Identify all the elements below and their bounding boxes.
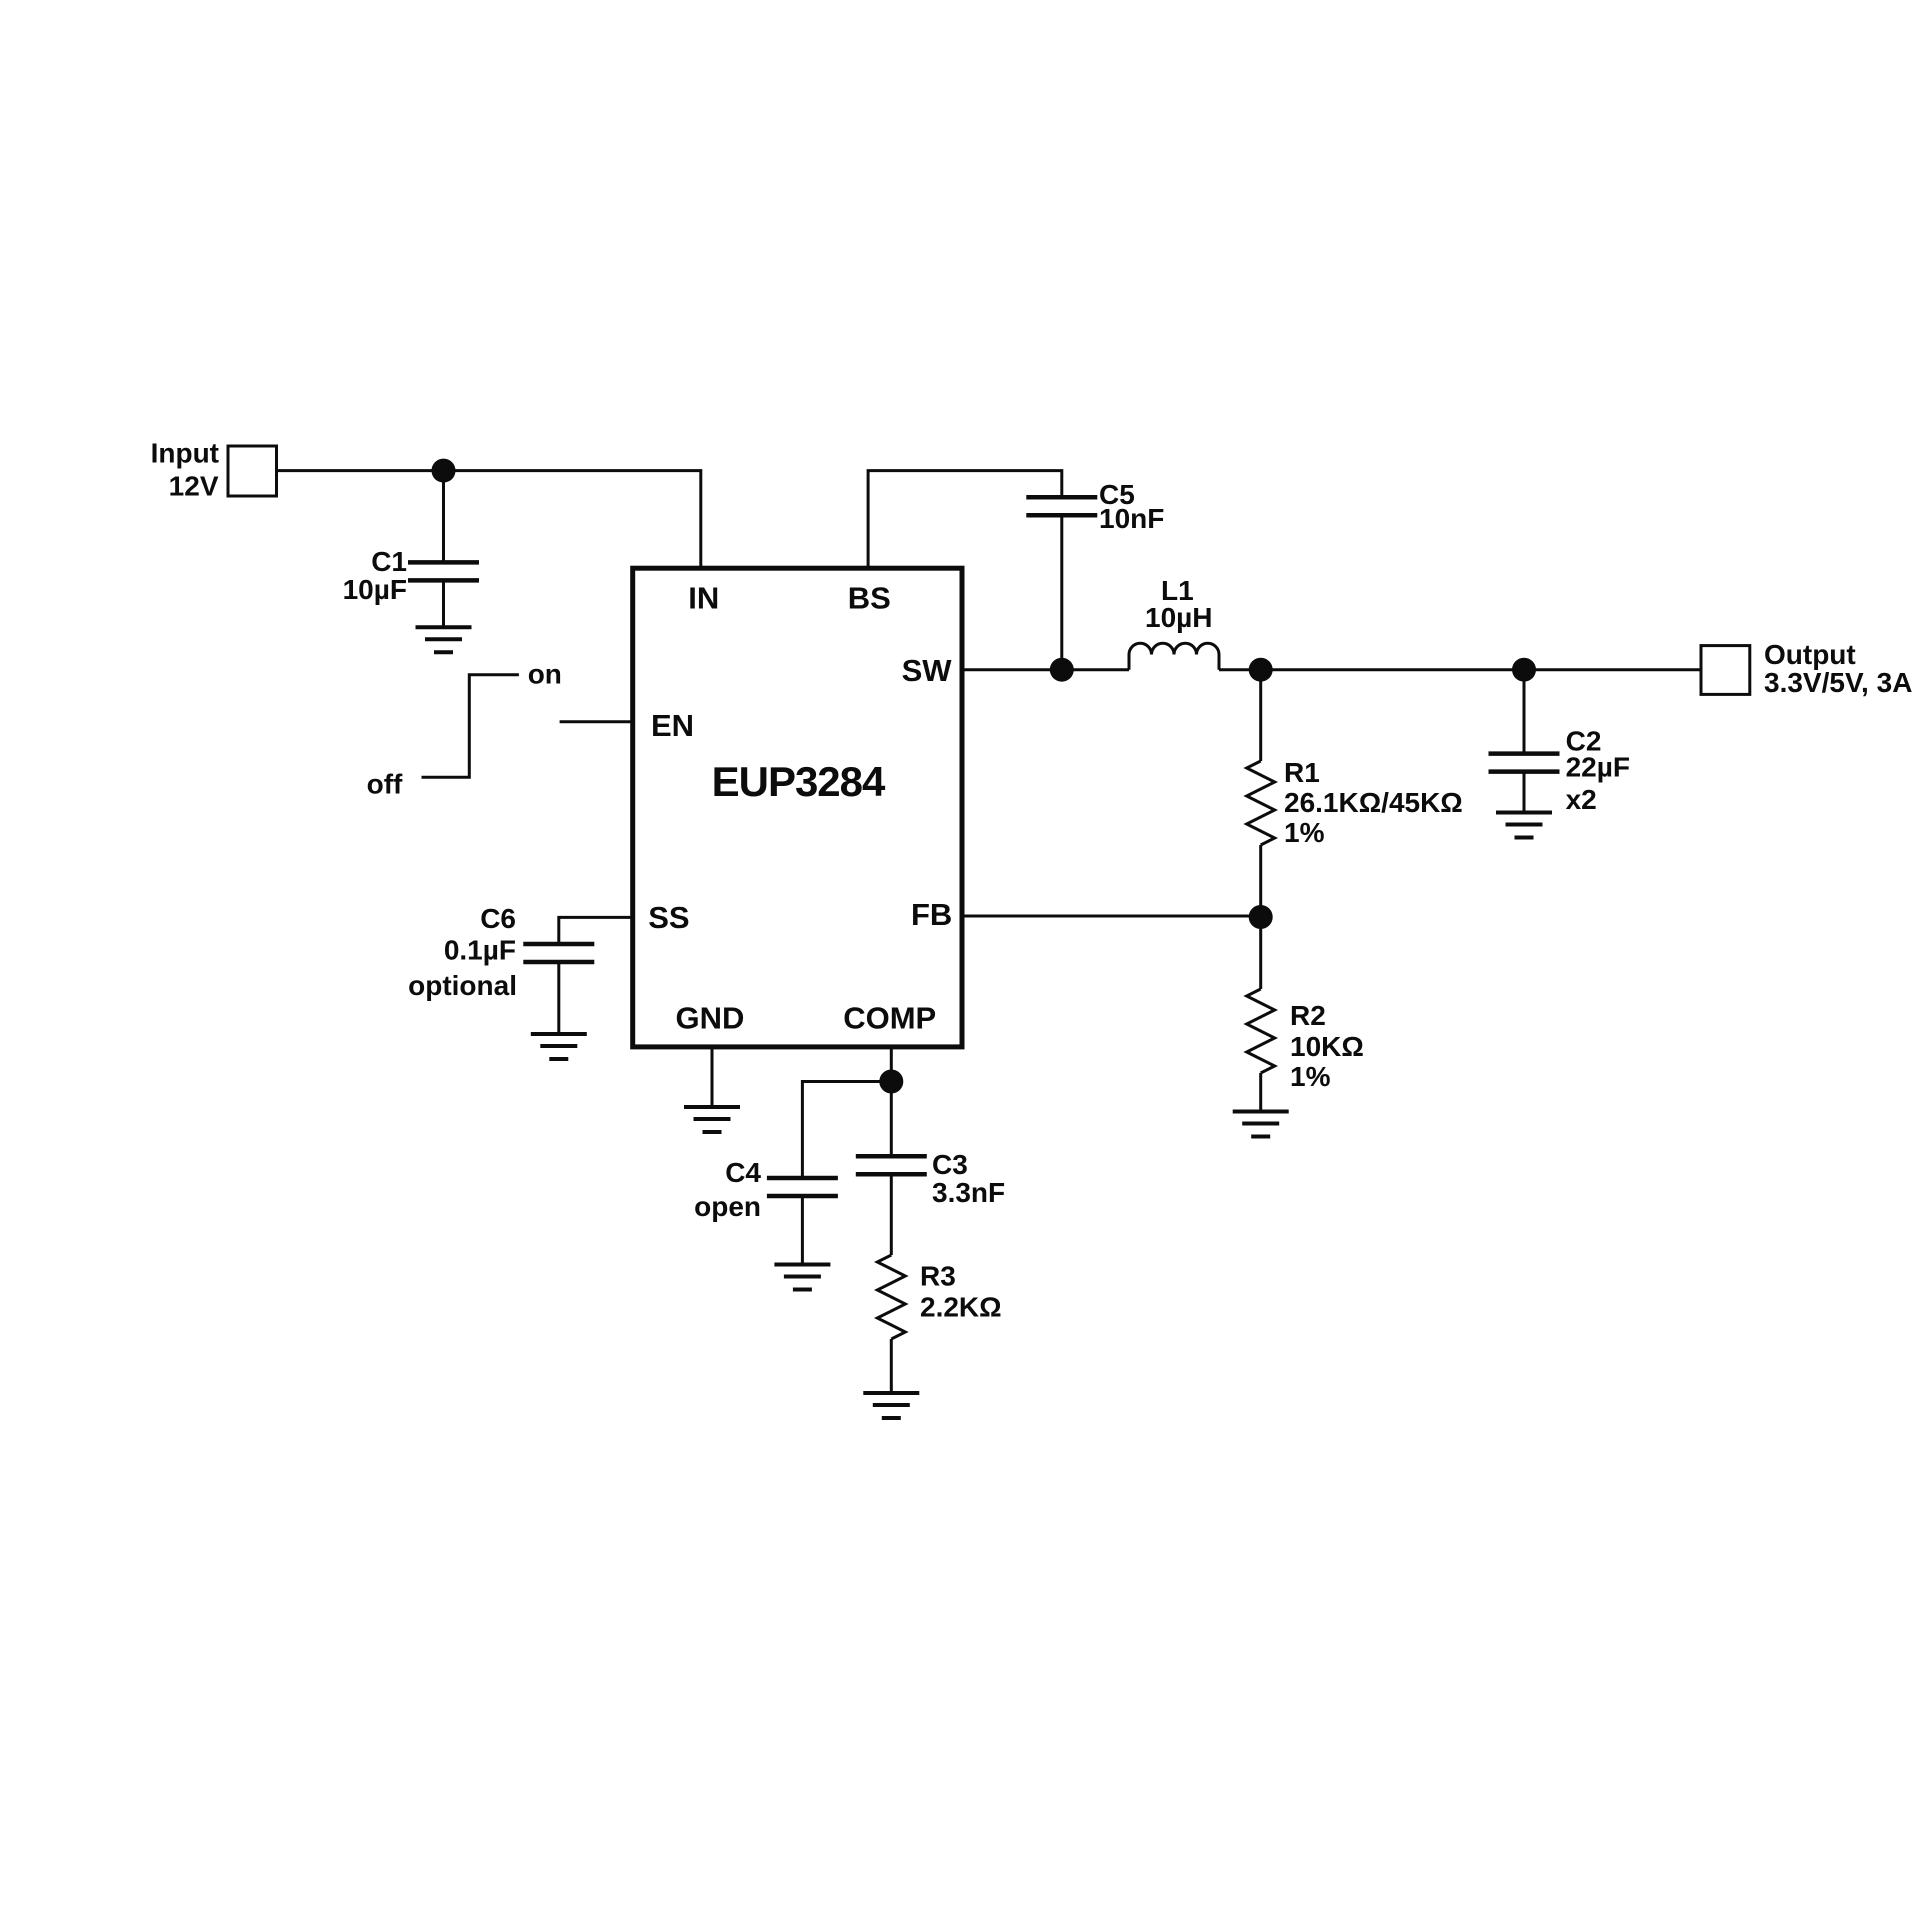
svg-text:IN: IN (688, 580, 719, 615)
svg-text:R3: R3 (920, 1261, 956, 1292)
svg-text:10nF: 10nF (1099, 503, 1164, 534)
svg-text:R2: R2 (1290, 1000, 1326, 1031)
svg-text:C1: C1 (371, 546, 407, 577)
svg-text:1%: 1% (1290, 1061, 1331, 1092)
svg-text:EN: EN (651, 708, 694, 743)
svg-text:GND: GND (676, 1001, 745, 1036)
svg-text:optional: optional (408, 970, 517, 1001)
svg-text:26.1KΩ/45KΩ: 26.1KΩ/45KΩ (1284, 787, 1463, 818)
svg-text:COMP: COMP (843, 1001, 936, 1036)
svg-text:SW: SW (902, 653, 953, 688)
svg-text:EUP3284: EUP3284 (712, 758, 886, 805)
svg-text:Output: Output (1764, 639, 1856, 670)
svg-text:off: off (367, 769, 403, 800)
svg-text:10µH: 10µH (1145, 602, 1213, 633)
svg-text:12V: 12V (169, 470, 219, 501)
svg-text:C3: C3 (932, 1149, 968, 1180)
svg-text:Input: Input (151, 438, 219, 469)
svg-text:C4: C4 (725, 1157, 761, 1188)
svg-text:0.1µF: 0.1µF (444, 935, 516, 966)
svg-text:on: on (528, 658, 562, 689)
svg-text:10KΩ: 10KΩ (1290, 1031, 1364, 1062)
svg-text:R1: R1 (1284, 757, 1320, 788)
svg-text:BS: BS (848, 580, 891, 615)
svg-text:2.2KΩ: 2.2KΩ (920, 1292, 1002, 1323)
svg-text:1%: 1% (1284, 817, 1325, 848)
svg-text:SS: SS (648, 900, 689, 935)
svg-text:10µF: 10µF (343, 574, 407, 605)
svg-text:22µF: 22µF (1566, 752, 1630, 783)
svg-text:C6: C6 (480, 903, 516, 934)
svg-text:x2: x2 (1566, 784, 1597, 815)
svg-text:FB: FB (911, 897, 952, 932)
svg-text:3.3nF: 3.3nF (932, 1177, 1005, 1208)
svg-text:open: open (694, 1191, 761, 1222)
svg-text:3.3V/5V, 3A: 3.3V/5V, 3A (1764, 667, 1912, 698)
